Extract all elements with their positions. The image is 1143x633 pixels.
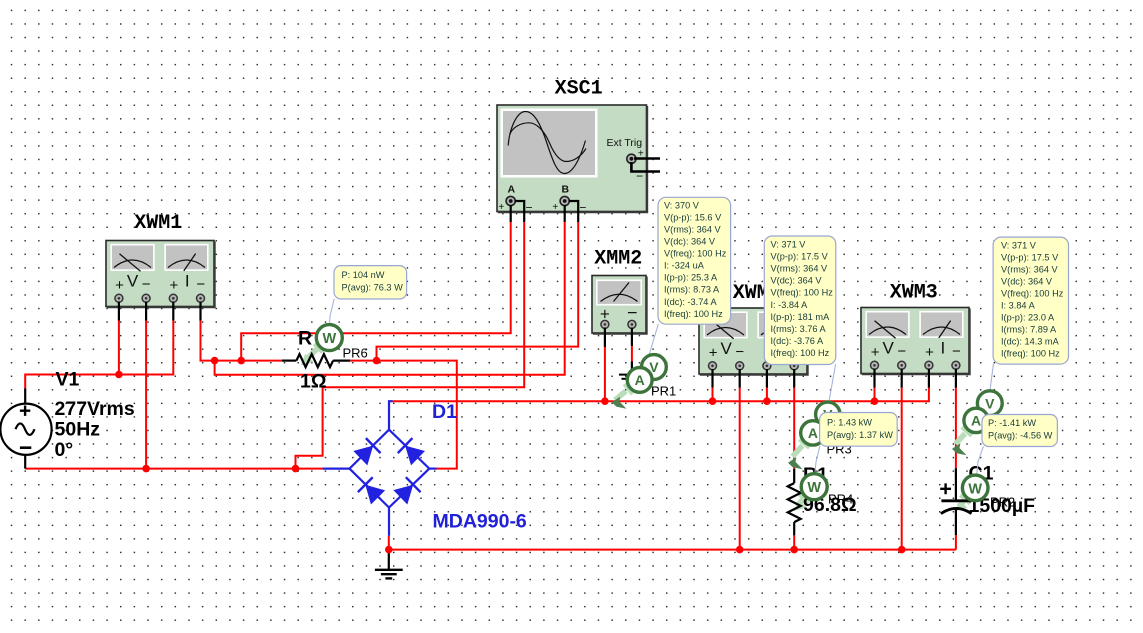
label Ext Trig	[607, 137, 643, 149]
svg-text:V(dc): 364 V: V(dc): 364 V	[771, 276, 823, 286]
svg-text:V(rms): 364 V: V(rms): 364 V	[1001, 265, 1059, 275]
probe connector line PR3 tooltip	[816, 364, 836, 438]
wire R1 bottom to ground bus	[793, 535, 795, 549]
ground main symbol	[375, 550, 403, 579]
svg-text:−: −	[952, 343, 961, 360]
wire stub scope A black	[511, 201, 525, 222]
probe PR6 power probe circle W	[316, 325, 342, 351]
probe PR2 circle V	[977, 391, 1002, 416]
svg-text:P(avg): 76.3 W: P(avg): 76.3 W	[342, 282, 404, 292]
value 1500uF	[969, 495, 1036, 517]
wattmeter XWM1 body	[106, 241, 215, 308]
wire V1- bottom net to D1 left	[25, 468, 322, 470]
wire V1+ to XWM1 I+ (net N1)	[25, 321, 173, 389]
probe connector line PR1 tooltip	[648, 324, 658, 358]
svg-text:+: +	[170, 277, 179, 294]
svg-text:I: 3.84 A: I: 3.84 A	[1001, 301, 1036, 311]
bridge rectifier D1 diamond	[323, 401, 437, 536]
svg-text:+: +	[115, 277, 124, 294]
svg-text:V: 370 V: V: 370 V	[664, 201, 700, 211]
wire stub XWM1 terminals black	[119, 302, 201, 321]
wire XWM2 I+ to bus	[766, 388, 768, 402]
svg-text:V: 371 V: V: 371 V	[771, 240, 807, 250]
svg-text:XMM2: XMM2	[594, 248, 642, 271]
wire scope A+ to resistor left node	[241, 222, 511, 361]
wire stub XWM2 terminals black	[713, 369, 795, 388]
label XWM1	[134, 212, 182, 235]
junction scope A- bottom node	[292, 465, 300, 473]
svg-text:I(freq): 100 Hz: I(freq): 100 Hz	[664, 309, 723, 319]
wire XMM2 + to DC bus	[604, 347, 606, 401]
wire DC+ bus D1 top to XWM3 I+	[393, 388, 929, 402]
svg-text:A: A	[971, 413, 981, 429]
wire XWM3 V+ to bus	[874, 388, 876, 402]
svg-text:PR1: PR1	[651, 384, 676, 399]
wire scope B+ to resistor left node	[215, 222, 565, 375]
terminal XSC1 ext trig	[627, 154, 636, 163]
svg-text:I(rms): 8.73 A: I(rms): 8.73 A	[664, 285, 720, 295]
pin labels +V- XWM2	[709, 339, 745, 362]
wire XWM2 V- to ground bus	[739, 388, 741, 550]
voltage source V1	[0, 404, 51, 455]
tooltip PR3 readout	[764, 236, 836, 365]
junction R1 bottom on ground bus	[790, 546, 798, 554]
svg-text:I(freq): 100 Hz: I(freq): 100 Hz	[1001, 349, 1060, 359]
probe PR5 circle W	[962, 475, 988, 501]
svg-text:MDA990-6: MDA990-6	[433, 511, 527, 533]
svg-text:−: −	[196, 276, 205, 293]
probe PR4 circle W	[801, 474, 827, 500]
svg-text:V(p-p): 17.5 V: V(p-p): 17.5 V	[1001, 253, 1059, 263]
tooltip PR4 power readout	[820, 413, 898, 447]
svg-text:I(freq): 100 Hz: I(freq): 100 Hz	[771, 348, 830, 358]
terminal XSC1 A	[506, 196, 515, 205]
wire XMM2 - red segment	[631, 346, 633, 362]
svg-text:R: R	[298, 328, 312, 350]
label XWM3	[890, 282, 938, 305]
probe text PR3	[827, 442, 852, 457]
pin + ext trig	[638, 149, 644, 160]
junction XWM3 V- on ground bus	[898, 546, 906, 554]
svg-text:P: 1.43 kW: P: 1.43 kW	[827, 418, 872, 428]
value 1 ohm	[300, 370, 326, 392]
probe connector line PR5 tooltip	[977, 446, 984, 475]
junction scope B- resistor right	[373, 357, 381, 365]
resistor R body	[282, 354, 350, 367]
svg-text:I(dc): -3.74 A: I(dc): -3.74 A	[664, 297, 717, 307]
probe PR2 arrow	[952, 427, 972, 455]
svg-text:XSC1: XSC1	[555, 78, 603, 101]
junction XMM2+ on bus	[601, 397, 609, 405]
svg-text:Ext Trig: Ext Trig	[607, 137, 643, 149]
probe text PR6	[343, 346, 368, 361]
value 96.8 ohm	[803, 494, 857, 516]
probe PR1 circle V	[642, 355, 667, 380]
svg-text:−: −	[142, 276, 151, 293]
svg-text:V(freq): 100 Hz: V(freq): 100 Hz	[664, 249, 727, 259]
svg-text:277Vrms: 277Vrms	[55, 398, 135, 420]
pin labels +I- XWM3	[925, 339, 961, 362]
svg-text:V: V	[127, 272, 139, 291]
pin labels +V- XWM1	[115, 272, 151, 295]
svg-text:V(rms): 364 V: V(rms): 364 V	[664, 225, 722, 235]
wire XWM3 I- to C1 top	[955, 388, 957, 469]
value 50Hz	[55, 419, 101, 441]
svg-text:−: −	[627, 303, 638, 323]
svg-text:I(p-p): 181 mA: I(p-p): 181 mA	[771, 312, 831, 322]
svg-text:+: +	[871, 344, 880, 361]
svg-text:V: V	[721, 339, 733, 358]
svg-text:1Ω: 1Ω	[300, 370, 326, 392]
pin + channel B	[552, 202, 558, 213]
wire C1 bottom to ground bus	[955, 535, 957, 550]
diode D1 bottom-right	[393, 477, 421, 505]
svg-text:D1: D1	[432, 401, 457, 423]
terminal XSC1 B	[560, 196, 569, 205]
wattmeter XWM3 body	[861, 308, 970, 375]
label channel A	[508, 184, 516, 196]
wire scope A- to bottom net	[296, 222, 525, 469]
wire ext trig - open stub	[631, 162, 660, 172]
svg-text:+: +	[925, 344, 934, 361]
terminals XMM2	[601, 320, 636, 328]
label C1	[969, 463, 994, 485]
wire V1 top lead black	[24, 389, 26, 405]
svg-text:I(dc): -3.76 A: I(dc): -3.76 A	[771, 336, 824, 346]
label R	[298, 328, 312, 350]
label V1	[56, 369, 80, 391]
junction scope B+ node	[211, 357, 219, 365]
wire stub scope B black	[565, 201, 579, 222]
svg-text:W: W	[807, 480, 821, 496]
svg-text:−: −	[735, 344, 744, 361]
resistor R1 body vertical	[788, 469, 801, 536]
wire XWM1 I- to resistor R left	[201, 321, 283, 361]
probe text PR4 under value	[828, 492, 853, 507]
wire XMM2 - lower black segment	[631, 362, 633, 375]
probe PR3 circle A	[801, 421, 825, 445]
probe connector line PR6 tooltip	[330, 299, 335, 325]
junction XWM3 V+ on bus	[871, 397, 879, 405]
svg-text:V: 371 V: V: 371 V	[1001, 241, 1037, 251]
svg-text:+: +	[709, 345, 718, 362]
probe PR2 circle A	[964, 408, 988, 432]
wire ext trig + open stub	[634, 157, 660, 160]
svg-text:0°: 0°	[55, 439, 74, 461]
svg-text:−: −	[897, 343, 906, 360]
svg-text:P(avg): -4.56 W: P(avg): -4.56 W	[988, 431, 1053, 441]
wire XWM2 I- to R1 top	[793, 388, 795, 469]
svg-text:V(p-p): 17.5 V: V(p-p): 17.5 V	[771, 252, 829, 262]
pin labels + - XMM2	[600, 303, 638, 324]
label XMM2	[594, 248, 642, 271]
value MDA990-6	[433, 511, 527, 533]
wire R right to D1 right vertex	[350, 361, 457, 469]
pin + channel A	[498, 202, 504, 213]
wire V1 bottom lead black	[24, 455, 26, 469]
svg-text:I(rms): 7.89 A: I(rms): 7.89 A	[1001, 325, 1057, 335]
label XWM2	[733, 282, 781, 305]
tooltip PR2 readout	[993, 237, 1068, 364]
svg-text:B: B	[562, 184, 570, 196]
terminals XWM3	[871, 361, 960, 369]
label XSC1	[555, 78, 603, 101]
svg-text:W: W	[322, 331, 336, 347]
probe PR3 circle V	[816, 402, 840, 426]
pin labels +I- XWM2	[763, 339, 799, 362]
probe PR1 arrow	[612, 384, 633, 409]
wire XWM1 V- to bottom net	[145, 321, 147, 469]
probe PR1 circle A	[627, 368, 652, 393]
svg-text:50Hz: 50Hz	[55, 419, 101, 441]
svg-text:P: 104 nW: P: 104 nW	[342, 270, 385, 280]
svg-text:P: -1.41 kW: P: -1.41 kW	[988, 418, 1036, 428]
pin - channel B	[579, 201, 586, 215]
svg-text:XWM1: XWM1	[134, 212, 182, 235]
pin labels +V- XWM3	[871, 339, 907, 362]
svg-text:I: -3.84 A: I: -3.84 A	[771, 300, 809, 310]
svg-text:I(dc): 14.3 mA: I(dc): 14.3 mA	[1001, 337, 1060, 347]
wire scope B- to resistor right node	[377, 222, 579, 361]
svg-text:I(p-p): 25.3 A: I(p-p): 25.3 A	[664, 273, 718, 283]
svg-text:XWM3: XWM3	[890, 282, 938, 305]
probe connector line PR4 tooltip	[815, 446, 820, 474]
tooltip PR5 power readout	[982, 415, 1057, 447]
svg-text:V: V	[985, 395, 995, 411]
wire ground bus	[389, 536, 956, 550]
junction V1- XWM1 V-	[142, 465, 150, 473]
oscilloscope XSC1 body	[497, 105, 647, 212]
diode D1 top-right	[398, 438, 426, 466]
probe connector line PR2 tooltip	[990, 364, 993, 392]
capacitor C1 plus sign	[940, 483, 951, 494]
terminals XWM1	[115, 294, 205, 302]
junction ground node	[385, 546, 393, 554]
multimeter XMM2 body	[592, 276, 647, 334]
svg-text:V1: V1	[56, 369, 80, 391]
value 0 deg	[55, 439, 74, 461]
svg-text:A: A	[508, 184, 516, 196]
svg-text:I: I	[941, 339, 946, 358]
tooltip PR6 power readout	[334, 266, 407, 299]
wire stub XWM3 terminals black	[875, 369, 956, 388]
svg-text:V(dc): 364 V: V(dc): 364 V	[664, 237, 716, 247]
wire XWM3 V- to ground bus	[901, 388, 903, 550]
probe text PR2 under value	[990, 495, 1015, 510]
svg-text:−: −	[579, 201, 586, 215]
junction XWM2 V- on ground bus	[736, 546, 744, 554]
capacitor C1 body	[941, 468, 972, 535]
probe PR6 arrow	[301, 344, 323, 366]
junction XWM2 I+ on bus	[763, 397, 771, 405]
svg-text:PR6: PR6	[343, 346, 368, 361]
junction XWM2 V+ on bus	[709, 397, 717, 405]
probe PR4 arrow power R1	[794, 494, 810, 511]
svg-text:W: W	[968, 481, 982, 497]
svg-text:V(p-p): 15.6 V: V(p-p): 15.6 V	[664, 213, 722, 223]
label R1	[803, 464, 828, 486]
pin - channel A	[525, 201, 532, 215]
svg-text:V(freq): 100 Hz: V(freq): 100 Hz	[1001, 289, 1064, 299]
junction scope A+ node	[237, 357, 245, 365]
svg-text:I(rms): 3.76 A: I(rms): 3.76 A	[771, 324, 827, 334]
probe PR5 arrow power C1	[955, 495, 971, 512]
pin labels +I- XWM1	[170, 272, 206, 295]
diode D1 bottom-left	[358, 477, 386, 505]
svg-text:V: V	[883, 339, 895, 358]
svg-text:−: −	[525, 201, 532, 215]
svg-text:I: I	[185, 272, 190, 291]
probe text PR1	[651, 384, 676, 399]
wattmeter XWM2 body	[699, 308, 808, 375]
ground XMM2 reference small	[619, 375, 632, 379]
label D1	[432, 401, 457, 423]
svg-text:+: +	[498, 202, 504, 213]
svg-text:V(rms): 364 V: V(rms): 364 V	[771, 264, 829, 274]
svg-text:+: +	[552, 202, 558, 213]
svg-text:I: -324 uA: I: -324 uA	[664, 261, 705, 271]
label channel B	[562, 184, 570, 196]
terminals XWM2	[709, 362, 799, 370]
svg-text:A: A	[808, 425, 818, 441]
svg-text:I(p-p): 23.0 A: I(p-p): 23.0 A	[1001, 313, 1055, 323]
junction V1+ XWM1 V+	[115, 371, 123, 379]
wire XWM2 V+ to bus	[712, 388, 714, 402]
svg-text:V(dc): 364 V: V(dc): 364 V	[1001, 277, 1053, 287]
value 277Vrms	[55, 398, 135, 420]
svg-text:P(avg): 1.37 kW: P(avg): 1.37 kW	[827, 430, 893, 440]
pin - ext trig	[636, 169, 643, 183]
svg-text:V(freq): 100 Hz: V(freq): 100 Hz	[771, 288, 834, 298]
wire stub XMM2 terminals black	[605, 328, 632, 348]
tooltip PR1 readout	[658, 197, 731, 324]
wire XWM1 V+ stub	[118, 321, 120, 375]
svg-text:A: A	[635, 372, 645, 388]
diode D1 top-left	[353, 438, 381, 466]
probe PR3 arrow	[788, 439, 810, 469]
